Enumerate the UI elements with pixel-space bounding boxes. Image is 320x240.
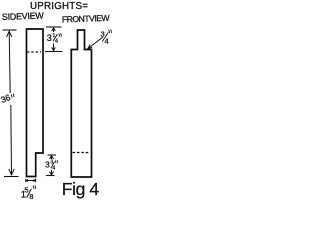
dimension 3 1/4 inch: up arrow [53, 28, 55, 32]
leader arrow for 3/4 inch tenon width [88, 37, 103, 49]
svg-text:Fig 4: Fig 4 [62, 179, 100, 199]
svg-text:FRONTVIEW: FRONTVIEW [62, 13, 111, 25]
svg-text:SIDEVIEW: SIDEVIEW [2, 11, 45, 22]
svg-text:3: 3 [45, 160, 50, 170]
dimension 36 inch: upper shaft with up arrow [9, 32, 10, 94]
svg-text:4: 4 [52, 165, 55, 171]
dimension 36 inch: top tick [3, 29, 17, 31]
dimension 36 inch: lower shaft with down arrow [10, 105, 13, 174]
dimension 36 inch: bottom tick [4, 176, 19, 178]
svg-text:8: 8 [29, 192, 33, 200]
dimension 3 3/4 inch: down arrow [51, 170, 53, 175]
dimension 3 3/4 inch: bottom tick [46, 175, 55, 177]
side view upright outline [27, 29, 44, 177]
front view hidden line (dashed) [73, 152, 90, 154]
svg-text:3: 3 [47, 33, 52, 43]
dimension 3 3/4 inch (bottom notch): top tick [48, 154, 57, 156]
dimension 3 1/4 inch (tenon length): top tick [46, 26, 62, 28]
svg-text:36: 36 [0, 92, 12, 105]
side view hidden line (dashed) [27, 51, 41, 53]
dimension 3 3/4 inch: up arrow [51, 156, 53, 159]
svg-text:4: 4 [55, 38, 58, 44]
svg-text:4: 4 [105, 37, 109, 46]
dimension 3 1/4 inch: down arrow [53, 44, 55, 51]
dimension 1 5/8 inch: line with end ticks and arrows [26, 179, 36, 183]
svg-text:5: 5 [24, 186, 28, 195]
dimension 3 1/4 inch: bottom tick [45, 51, 63, 53]
front view upright outline [71, 30, 91, 177]
